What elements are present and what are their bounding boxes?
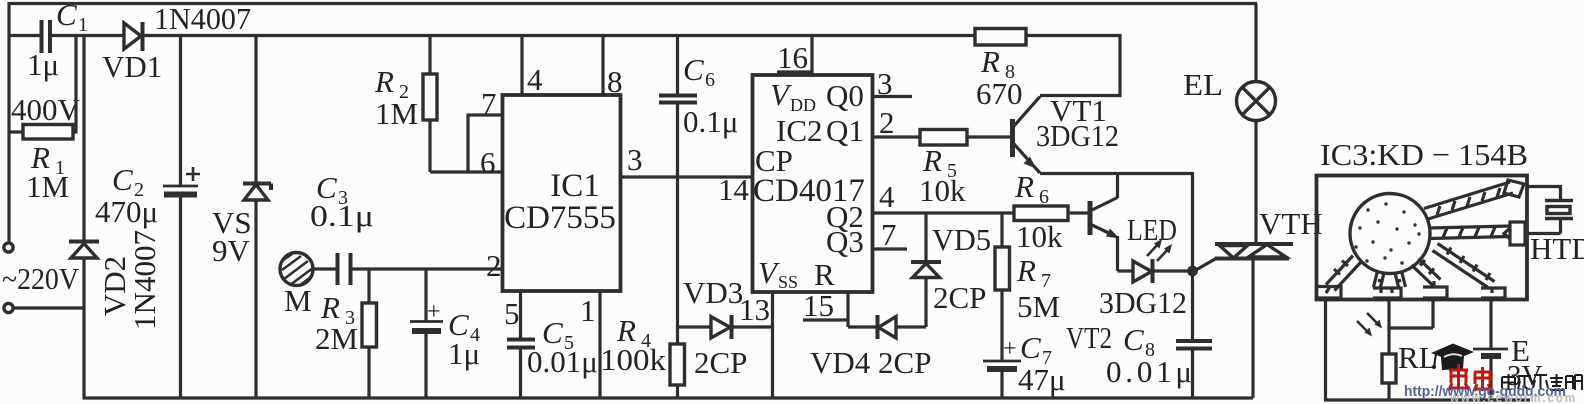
watermark red characters <box>1449 364 1492 391</box>
IC2 pin 16 <box>777 36 812 76</box>
svg-text:2CP: 2CP <box>694 345 747 380</box>
wire top mains rail <box>9 2 1257 5</box>
svg-text:M: M <box>284 283 312 318</box>
svg-text:6: 6 <box>1039 186 1049 208</box>
music chip IC3 KD-154B module box <box>1317 137 1529 300</box>
resistor R6 <box>1014 169 1089 254</box>
wire M to C3 <box>313 267 337 270</box>
svg-text:4: 4 <box>527 62 543 97</box>
resistor R8 <box>975 29 1026 112</box>
zener VS <box>212 36 271 399</box>
svg-text:V: V <box>758 255 780 290</box>
svg-text:C: C <box>683 52 704 87</box>
svg-text:+: + <box>1003 336 1017 362</box>
svg-text:C: C <box>1123 322 1144 357</box>
svg-text:3: 3 <box>877 66 893 101</box>
svg-text:3: 3 <box>627 142 643 177</box>
svg-text:V: V <box>770 77 792 112</box>
wire IC3 bottom rail <box>1324 398 1530 401</box>
svg-text:www.eeworm.com: www.eeworm.com <box>1449 391 1577 404</box>
svg-text:C: C <box>56 0 77 32</box>
svg-text:14: 14 <box>718 172 750 207</box>
wire IC1 pin 6 <box>430 170 503 173</box>
svg-text:1N4007: 1N4007 <box>154 1 251 36</box>
IC2 pin 7 Q3 stub <box>873 247 908 250</box>
capacitor C4 electrolytic <box>410 269 480 398</box>
svg-text:R: R <box>980 44 1000 79</box>
svg-text:IC3:KD − 154B: IC3:KD − 154B <box>1320 137 1528 172</box>
junction node triac gate <box>1187 266 1198 277</box>
IC3 bond strip A to top-right pad <box>1424 180 1524 219</box>
svg-text:1M: 1M <box>375 96 418 131</box>
svg-text:CD7555: CD7555 <box>504 200 616 236</box>
IC3 bond strip C to bottom-left pad <box>1318 256 1361 299</box>
IC3 bond strip D to pad 2 <box>1373 271 1406 298</box>
resistor R4 <box>600 313 685 398</box>
svg-text:RL: RL <box>1398 340 1438 375</box>
svg-text:1N4007: 1N4007 <box>127 230 162 330</box>
IC3 chip blob <box>1350 194 1430 274</box>
svg-text:DD: DD <box>790 95 816 115</box>
svg-text:7: 7 <box>881 217 897 252</box>
svg-text:Q3: Q3 <box>826 224 864 259</box>
svg-text:Q1: Q1 <box>826 113 864 148</box>
svg-text:1μ: 1μ <box>448 336 480 371</box>
svg-text:1M: 1M <box>26 169 69 204</box>
counter IC2 CD4017 <box>753 75 873 292</box>
svg-text:3DG12: 3DG12 <box>1036 118 1119 153</box>
svg-text:~220V: ~220V <box>2 261 80 296</box>
svg-text:VT2: VT2 <box>1066 320 1112 355</box>
IC2 pin 2 Q1 wire <box>873 135 921 138</box>
transistor VT1 <box>1013 93 1120 173</box>
wire VT1 emitter <box>1040 172 1193 266</box>
svg-text:10k: 10k <box>919 173 966 208</box>
svg-text:670: 670 <box>976 76 1023 111</box>
IC1 pin 1 <box>598 291 601 398</box>
IC2 pin 15 drop <box>803 292 848 327</box>
wire VT1 collector <box>1040 94 1122 97</box>
svg-text:LED: LED <box>1127 212 1177 247</box>
diode VD4 <box>810 315 931 380</box>
svg-text:IC1: IC1 <box>550 168 600 204</box>
svg-text:HTD: HTD <box>1530 231 1584 266</box>
svg-text:5: 5 <box>504 296 520 331</box>
IC2 pin 13 drop <box>771 292 774 398</box>
svg-text:6: 6 <box>480 145 496 180</box>
svg-text:VD4 2CP: VD4 2CP <box>810 345 931 380</box>
IC1 pin 5 and capacitor C5 <box>504 291 598 398</box>
diode VD5 <box>911 213 991 327</box>
terminal upper ~220V <box>4 243 13 252</box>
IC2 pin 4 Q2 wire <box>873 211 1015 214</box>
resistor R5 <box>919 130 1011 209</box>
svg-text:VTH: VTH <box>1259 206 1323 241</box>
capacitor C6 <box>659 36 738 328</box>
svg-text:5M: 5M <box>1017 289 1060 324</box>
svg-text:VD3: VD3 <box>683 275 743 310</box>
svg-text:10k: 10k <box>1016 219 1063 254</box>
microphone M <box>280 253 313 319</box>
terminal lower ~220V <box>4 303 13 312</box>
svg-text:400V: 400V <box>11 92 81 127</box>
svg-text:47μ: 47μ <box>1018 362 1066 397</box>
capacitor C3 <box>310 170 374 285</box>
watermark black site name <box>1502 374 1582 390</box>
wire bottom ground rail <box>83 396 1254 399</box>
transistor VT2 <box>1066 174 1187 356</box>
svg-text:0.1μ: 0.1μ <box>310 198 374 233</box>
capacitor C1 <box>11 0 88 127</box>
svg-text:R: R <box>320 290 340 325</box>
svg-text:1: 1 <box>580 293 596 328</box>
svg-text:9V: 9V <box>212 233 251 268</box>
svg-text:Q0: Q0 <box>826 78 864 113</box>
resistor R1 <box>9 36 78 205</box>
svg-text:470μ: 470μ <box>95 194 158 229</box>
op-amp/timer IC1 CD7555 <box>503 95 621 291</box>
svg-text:C: C <box>1020 330 1041 365</box>
wire IC1 pin 3 to IC2 pin 14 <box>621 175 753 178</box>
svg-text:R: R <box>1014 169 1034 204</box>
diode VD2 <box>69 36 162 399</box>
svg-text:2: 2 <box>486 248 502 283</box>
capacitor C7 electrolytic <box>983 330 1066 398</box>
svg-text:0.1μ: 0.1μ <box>683 104 738 139</box>
battery E <box>1473 300 1543 401</box>
resistor R2 <box>374 36 437 173</box>
wire IC1 pin 2 <box>351 267 503 270</box>
IC1 pin 8 <box>601 36 604 96</box>
svg-text:VD1: VD1 <box>102 49 162 84</box>
resistor R7 <box>995 213 1060 361</box>
svg-text:6: 6 <box>705 69 715 91</box>
wire IC3 left drop <box>1324 300 1327 401</box>
svg-text:3DG12: 3DG12 <box>1099 285 1187 320</box>
IC3 bond strip B to right pad <box>1429 222 1525 245</box>
LED <box>1118 212 1190 283</box>
svg-text:R: R <box>814 257 835 292</box>
svg-text:C: C <box>112 162 133 197</box>
wire left input drop <box>7 2 10 243</box>
piezo sounder HTD <box>1527 185 1584 266</box>
svg-text:1: 1 <box>78 14 88 36</box>
svg-text:R: R <box>374 64 394 99</box>
wire VDD rail <box>9 36 1122 96</box>
capacitor C2 electrolytic <box>95 36 200 399</box>
wire IC1 pin 7 loop <box>468 114 503 173</box>
IC3 bond strip E to pad 3 <box>1412 259 1448 299</box>
lamp EL <box>1183 4 1276 245</box>
svg-text:2: 2 <box>879 105 895 140</box>
svg-text:7: 7 <box>481 86 497 121</box>
IC1 pin 4 <box>520 36 523 96</box>
diode VD1 <box>102 1 251 84</box>
capacitor C8 <box>1106 271 1212 398</box>
svg-text:0.01μ: 0.01μ <box>1106 354 1192 389</box>
svg-text:SS: SS <box>778 272 798 292</box>
photoresistor RL <box>1357 300 1438 401</box>
svg-text:13: 13 <box>739 292 770 327</box>
svg-text:VD5: VD5 <box>932 222 991 257</box>
IC2 pin 3 Q0 stub <box>873 95 913 98</box>
svg-text:EL: EL <box>1183 67 1223 102</box>
svg-text:1μ: 1μ <box>27 47 59 82</box>
svg-text:2CP: 2CP <box>933 280 986 315</box>
resistor R3 <box>315 269 377 398</box>
svg-text:4: 4 <box>879 179 895 214</box>
svg-text:+: + <box>427 299 441 325</box>
triac VTH <box>1195 206 1323 398</box>
watermark graduation cap logo <box>1431 344 1474 371</box>
svg-text:100k: 100k <box>600 342 667 377</box>
diode VD3 <box>678 275 773 380</box>
svg-text:16: 16 <box>777 40 808 75</box>
svg-text:15: 15 <box>803 288 834 323</box>
svg-text:2M: 2M <box>315 321 358 356</box>
svg-text:8: 8 <box>607 64 623 99</box>
wire lower terminal to VD2 branch <box>14 306 85 309</box>
svg-text:R: R <box>1016 253 1036 288</box>
IC3 bond strip F to pad 4 <box>1433 244 1506 299</box>
svg-text:0.01μ: 0.01μ <box>527 344 598 379</box>
